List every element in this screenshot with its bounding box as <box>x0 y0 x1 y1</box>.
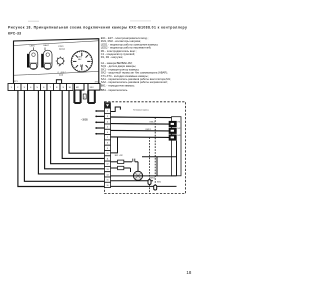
svg-text:16: 16 <box>107 185 109 187</box>
heater block EK rect <box>172 117 182 176</box>
svg-text:Рисунок 18. Принципиальная схе: Рисунок 18. Принципиальная схема подключ… <box>8 25 187 29</box>
lower bus 1 <box>111 180 154 182</box>
svg-text:4: 4 <box>107 121 108 123</box>
connector box XS2 <box>88 84 100 91</box>
svg-text:Тепловая завеса: Тепловая завеса <box>133 110 150 112</box>
svg-text:9: 9 <box>107 148 108 150</box>
svg-text:11: 11 <box>107 158 109 160</box>
switch SA2 lever bar <box>41 54 43 68</box>
capacitor C1 <box>132 159 134 162</box>
wire to motor <box>131 162 139 172</box>
scan smudge right <box>130 20 151 21</box>
svg-text:1Н2: 1Н2 <box>177 128 180 130</box>
wire stub row d <box>95 127 97 129</box>
legend text <box>101 36 171 92</box>
svg-text:СЕТЬ: СЕТЬ <box>30 46 36 48</box>
svg-text:12: 12 <box>107 164 109 166</box>
wire stub row a <box>95 110 97 112</box>
bus wire L4 <box>111 136 170 139</box>
switch SA1 body <box>29 50 38 69</box>
resistor R2 <box>111 167 118 169</box>
svg-text:6: 6 <box>107 132 108 134</box>
switch SA1 rocker <box>30 64 36 69</box>
knob SK1 <box>57 58 63 64</box>
terminal strip XT2 <box>105 103 111 188</box>
flag mark on first wire <box>111 107 121 112</box>
wire from terminal 9 <box>62 91 104 159</box>
timer dial ticks <box>73 53 91 71</box>
svg-text:5: 5 <box>107 127 108 129</box>
svg-text:ВК1 t R2: ВК1 t R2 <box>115 154 124 157</box>
contactor contact 3 <box>169 134 177 140</box>
wire from terminal 6 <box>45 91 105 169</box>
terminal numbers <box>11 87 72 89</box>
svg-text:14: 14 <box>107 174 109 176</box>
svg-text:15: 15 <box>107 180 109 182</box>
svg-text:2: 2 <box>107 111 108 113</box>
svg-text:М: М <box>80 64 83 68</box>
resistor R1 <box>111 161 118 163</box>
svg-text:3: 3 <box>107 116 108 118</box>
svg-text:КМ2.1: КМ2.1 <box>146 129 152 131</box>
switch SA2 body <box>43 50 52 69</box>
lower bus 2 <box>111 185 177 187</box>
bus wire L3 <box>111 129 170 132</box>
fuse capsule 2 <box>154 185 157 190</box>
scan smudge left <box>28 21 39 22</box>
bus wire L2 <box>111 123 170 126</box>
switch SA2 rocker <box>44 64 50 69</box>
svg-text:8: 8 <box>107 143 108 145</box>
bus wire L1 <box>111 116 172 119</box>
timer dial SK2 rim <box>71 51 92 72</box>
contactor contact 2 <box>169 128 177 134</box>
timer dial rim dashes <box>72 51 92 71</box>
svg-text:ВК1 - термодатчик камеры;: ВК1 - термодатчик камеры; <box>101 83 135 87</box>
svg-text:ВБ1 - переключатель.: ВБ1 - переключатель. <box>101 88 129 92</box>
right frame wires <box>133 141 176 176</box>
wire stub row e <box>95 133 97 135</box>
svg-text:7: 7 <box>107 137 108 139</box>
plug XS1 body <box>74 91 80 104</box>
fuse FU1 <box>83 94 86 99</box>
link bus4 to row10 <box>111 137 118 153</box>
svg-text:КМ1.1: КМ1.1 <box>150 177 156 179</box>
switch SA1 top mark <box>32 53 35 56</box>
wire from terminal 7 <box>51 91 105 164</box>
wire from terminal 5 <box>38 91 104 174</box>
wire from terminal 2 <box>18 91 105 187</box>
knob SK1 ticks <box>56 57 65 66</box>
svg-text:10: 10 <box>107 153 109 155</box>
svg-text:13: 13 <box>107 169 109 171</box>
panel bottom curve <box>14 71 99 75</box>
wire stub row b <box>95 116 97 118</box>
svg-text:~380В: ~380В <box>81 119 88 122</box>
wire stub row c <box>95 121 97 123</box>
svg-text:1Н3: 1Н3 <box>177 135 180 137</box>
svg-text:18: 18 <box>186 270 191 275</box>
switch SA2 divider <box>44 62 52 64</box>
switch SA1 lever bar <box>27 54 29 68</box>
svg-text:ВЕНТ: ВЕНТ <box>44 45 50 47</box>
connector box XS1 <box>75 84 85 91</box>
fuse capsule 1 <box>148 180 151 185</box>
mech link dashed 1 <box>149 137 151 179</box>
svg-text:(прогр): (прогр) <box>59 49 65 51</box>
svg-text:ХХХ: ХХХ <box>90 87 95 89</box>
mech link dashed 2 <box>154 117 156 185</box>
svg-text:R1, R2 - нагрузки;: R1, R2 - нагрузки; <box>101 55 123 59</box>
svg-text:(низ): (низ) <box>59 74 63 76</box>
bracket over terminal 8 <box>56 80 61 84</box>
switch SA1 divider <box>30 62 38 64</box>
wire from terminal 3 <box>24 91 104 182</box>
svg-text:КРС-33: КРС-33 <box>8 31 21 35</box>
svg-text:1Н1: 1Н1 <box>177 121 180 123</box>
strip marker arrow <box>105 103 110 108</box>
switch SA2 tick <box>44 48 46 51</box>
switch SA2 top mark <box>46 53 49 56</box>
controller A1 outline <box>14 39 99 84</box>
plug XS2 body <box>88 91 95 104</box>
contactor contact 1 <box>169 121 177 127</box>
wire strip to motor bottom <box>111 175 134 177</box>
terminal row squares 1-10 <box>8 84 73 91</box>
knob SK1 pointer <box>58 65 61 67</box>
panel top curve <box>14 41 99 46</box>
wire from terminal 10 <box>69 91 105 154</box>
enclosure dashed box <box>105 102 186 194</box>
motor M1 <box>133 171 142 180</box>
